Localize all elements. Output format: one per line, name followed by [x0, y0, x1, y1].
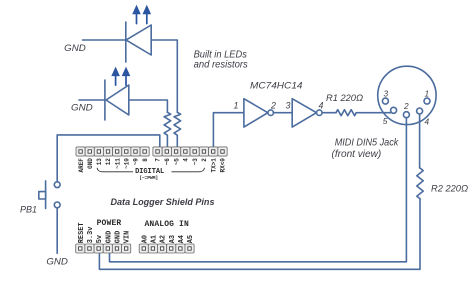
svg-text:ANALOG IN: ANALOG IN — [145, 220, 189, 229]
svg-text:13: 13 — [96, 158, 103, 166]
svg-text:3.3v: 3.3v — [87, 226, 95, 243]
svg-text:2: 2 — [201, 158, 208, 162]
svg-text:AREF: AREF — [78, 158, 85, 173]
svg-text:GND: GND — [105, 231, 113, 243]
svg-text:GND: GND — [46, 256, 68, 267]
svg-text:1: 1 — [234, 100, 239, 110]
svg-text:12: 12 — [105, 158, 112, 166]
svg-text:2: 2 — [403, 101, 409, 111]
svg-text:GND: GND — [87, 158, 94, 169]
svg-text:~3: ~3 — [192, 158, 199, 166]
svg-text:Data Logger Shield Pins: Data Logger Shield Pins — [111, 196, 215, 207]
svg-text:MC74HC14: MC74HC14 — [250, 81, 303, 91]
svg-text:A3: A3 — [169, 235, 177, 243]
svg-text:8: 8 — [142, 158, 149, 162]
svg-text:2: 2 — [270, 100, 276, 110]
svg-text:A1: A1 — [151, 235, 159, 243]
svg-text:PB1: PB1 — [20, 204, 37, 215]
svg-text:3: 3 — [286, 100, 291, 110]
svg-text:and resistors: and resistors — [194, 59, 248, 70]
svg-text:5v: 5v — [96, 234, 104, 243]
svg-text:VIN: VIN — [124, 231, 132, 243]
svg-text:GND: GND — [115, 231, 123, 243]
svg-text:POWER: POWER — [97, 219, 122, 228]
svg-text:~11: ~11 — [114, 158, 121, 169]
svg-text:~5: ~5 — [173, 158, 180, 166]
svg-text:RX<0: RX<0 — [220, 158, 227, 173]
svg-text:1: 1 — [425, 89, 430, 99]
svg-text:DIGITAL: DIGITAL — [135, 168, 164, 176]
svg-text:A5: A5 — [187, 235, 195, 243]
svg-text:5: 5 — [383, 116, 388, 126]
svg-text:4: 4 — [183, 158, 190, 162]
svg-text:GND: GND — [71, 103, 93, 114]
svg-text:3: 3 — [384, 89, 389, 99]
svg-text:TX>1: TX>1 — [210, 158, 217, 173]
svg-text:4: 4 — [319, 100, 324, 110]
svg-text:(front view): (front view) — [332, 149, 382, 160]
svg-text:A2: A2 — [160, 235, 168, 243]
svg-text:~6: ~6 — [164, 158, 171, 166]
svg-text:R2 220Ω: R2 220Ω — [431, 184, 468, 194]
svg-text:7: 7 — [155, 158, 162, 162]
svg-text:4: 4 — [425, 116, 430, 126]
svg-text:~9: ~9 — [133, 158, 140, 166]
svg-text:A4: A4 — [178, 235, 186, 243]
svg-text:RESET: RESET — [78, 223, 86, 244]
svg-text:[~=PWM]: [~=PWM] — [139, 175, 158, 181]
svg-text:~10: ~10 — [124, 158, 131, 169]
svg-text:GND: GND — [64, 43, 86, 54]
svg-text:A0: A0 — [141, 235, 149, 243]
svg-text:R1 220Ω: R1 220Ω — [326, 93, 363, 103]
svg-text:MIDI DIN5 Jack: MIDI DIN5 Jack — [335, 138, 400, 149]
